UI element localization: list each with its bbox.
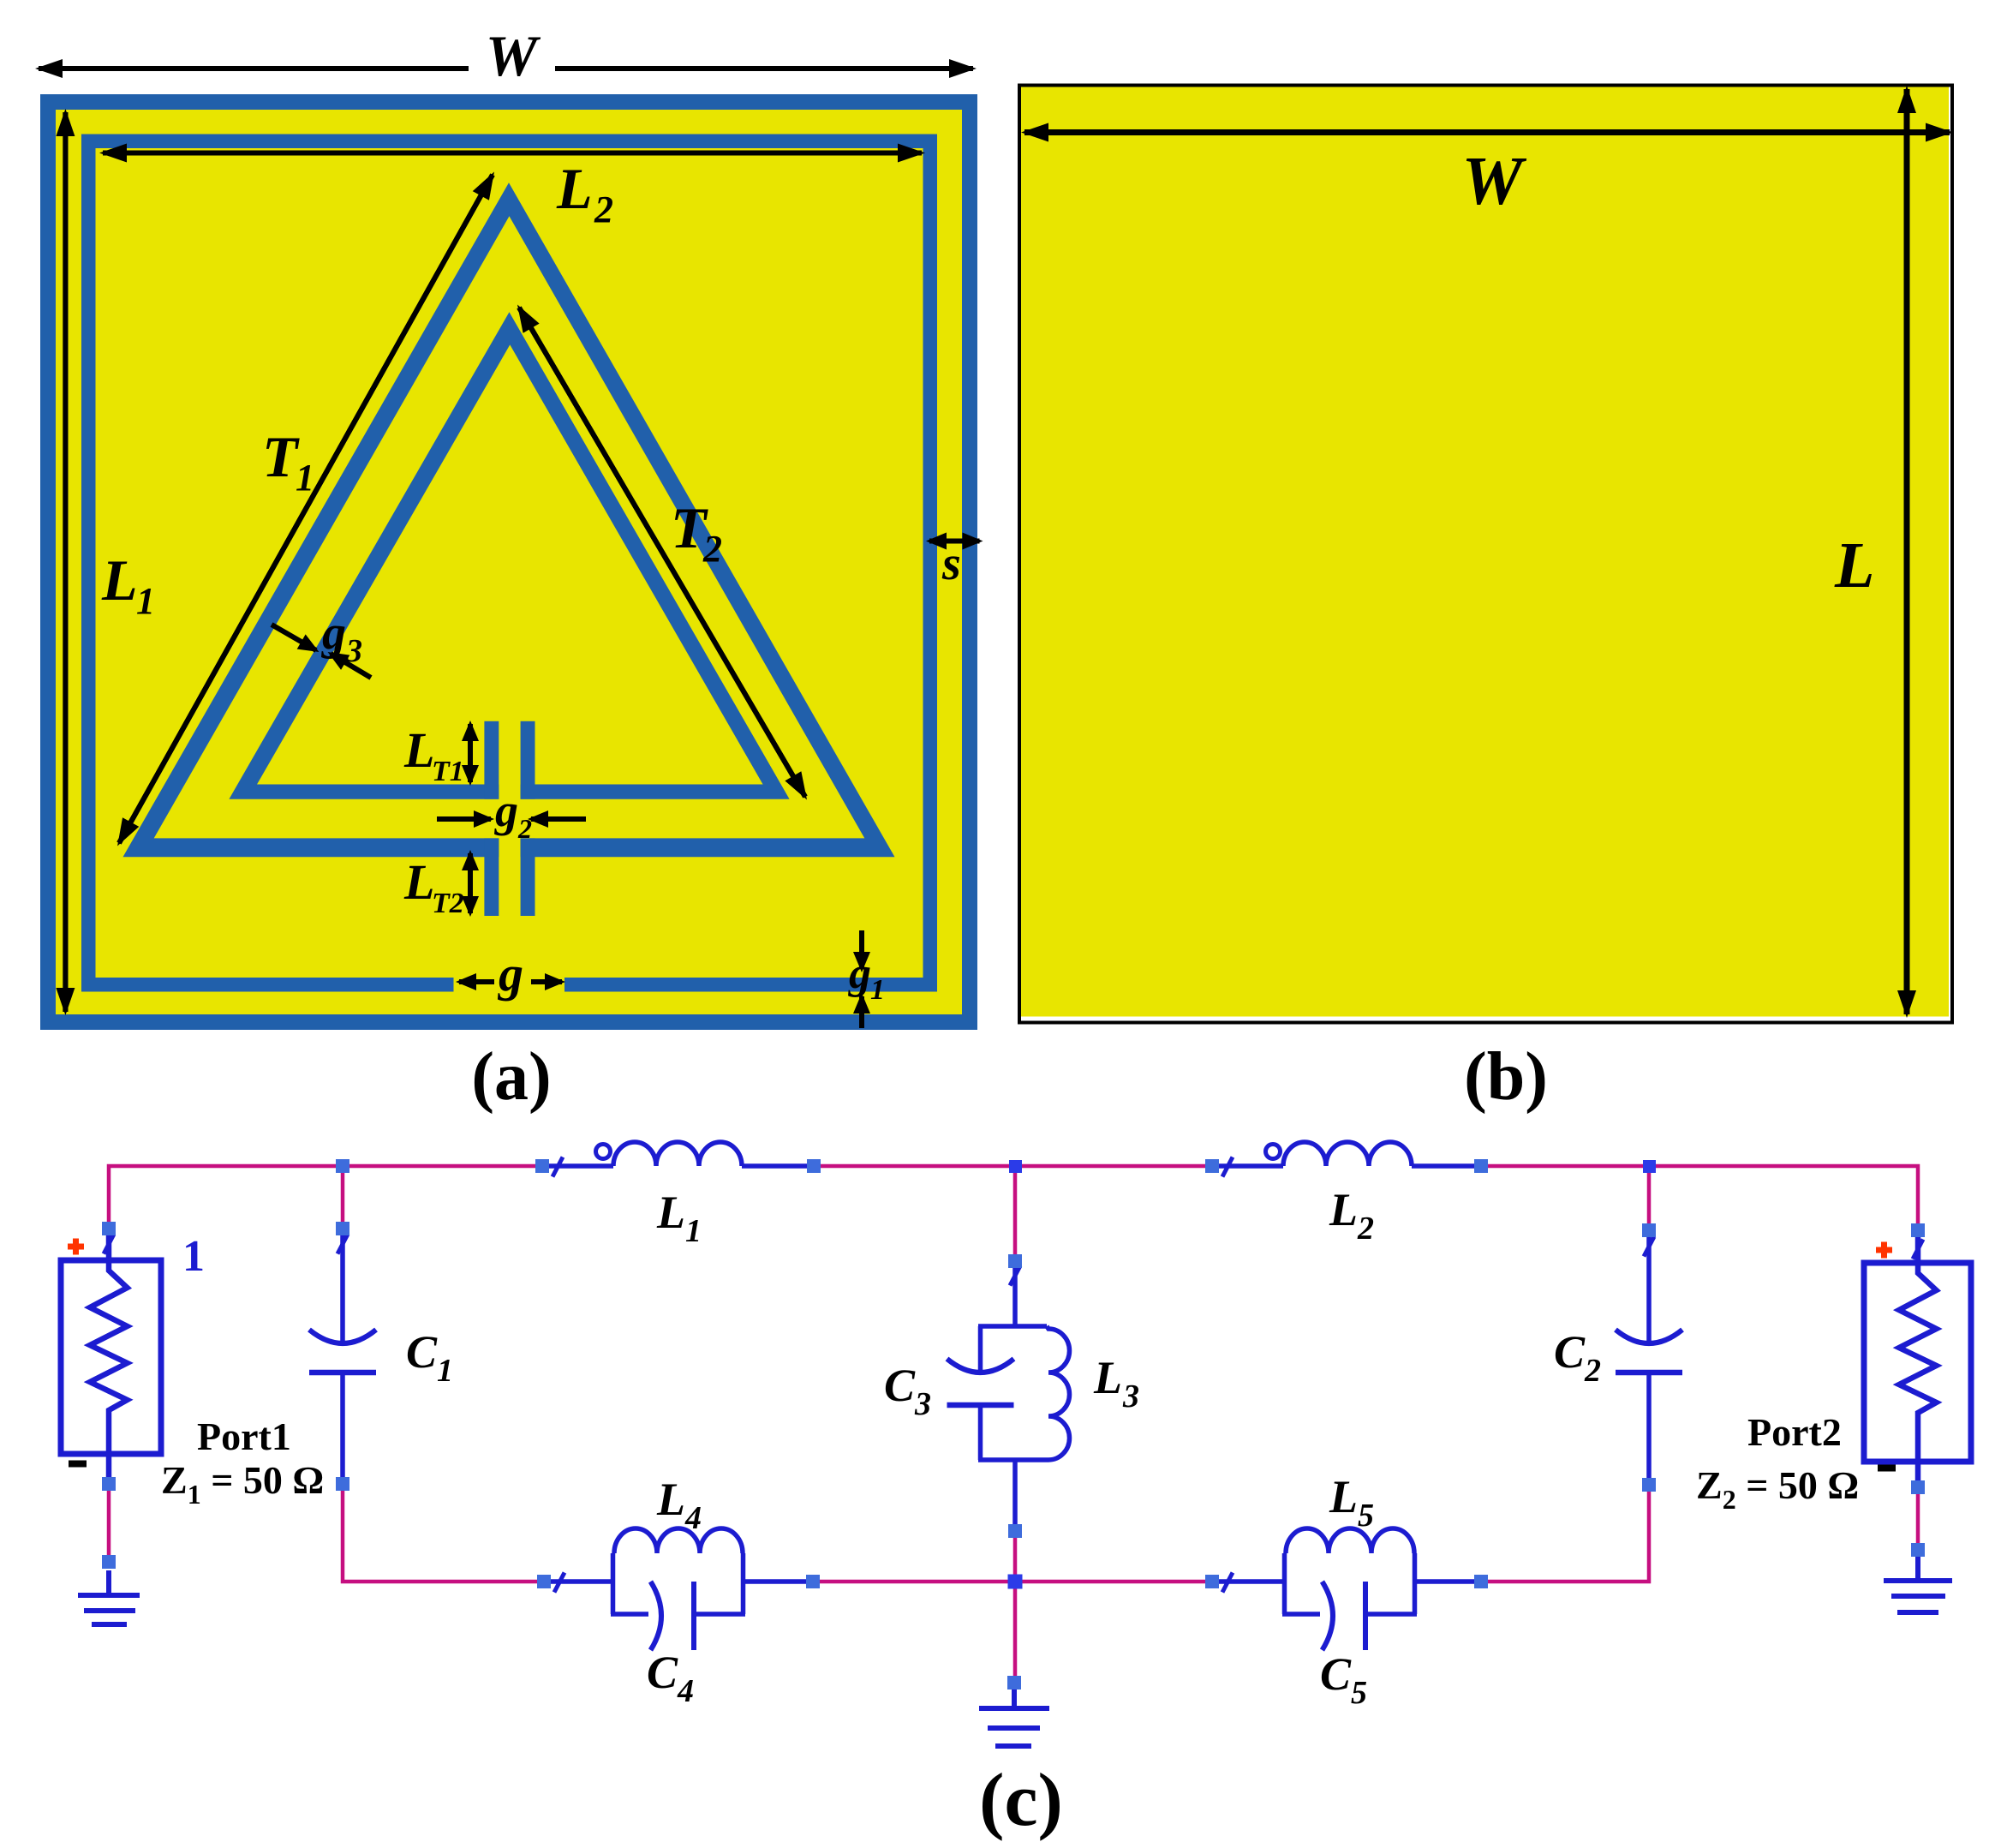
plus sign Port2: [1876, 1242, 1892, 1259]
ground Port2: [1884, 1550, 1952, 1612]
node top rail at C2: [1643, 1160, 1656, 1173]
capacitor C5 curved plate: [1323, 1582, 1334, 1650]
stub LT2 left (down from outer triangle base): [484, 838, 499, 916]
tick Port1: [104, 1235, 114, 1254]
dimension arrow W (panel b): [1024, 129, 1950, 135]
node C2 bottom: [1642, 1478, 1656, 1492]
svg-text:Z1 = 50 Ω: Z1 = 50 Ω: [161, 1458, 324, 1510]
capacitor C3 lower stub: [978, 1405, 983, 1460]
node C2 top: [1642, 1223, 1656, 1237]
node L5 left: [1205, 1575, 1219, 1588]
black border of panel (b): [1019, 86, 1952, 1023]
capacitor C1 lead lower: [340, 1373, 345, 1484]
minus sign Port2: [1878, 1465, 1896, 1472]
node L4 right: [806, 1575, 820, 1588]
svg-text:5: 5: [1358, 1498, 1374, 1534]
svg-text:1: 1: [296, 457, 314, 499]
tank L4 side verticals: [613, 1553, 744, 1614]
inductor L2 pin-1 circle: [1266, 1145, 1281, 1159]
tank L4 bottom lines: [611, 1612, 745, 1617]
LT2 double arrow: [468, 853, 473, 913]
wire Port2 lower pink: [1916, 1487, 1920, 1550]
svg-text:C: C: [884, 1360, 916, 1411]
svg-text:L: L: [403, 722, 434, 778]
inductor L2 leads: [1212, 1163, 1283, 1169]
svg-text:g: g: [320, 607, 346, 660]
node Port2 ground: [1911, 1543, 1925, 1557]
svg-text:L: L: [1093, 1352, 1122, 1403]
dimension arrow L2: [103, 151, 922, 156]
svg-text:Z2 = 50 Ω: Z2 = 50 Ω: [1696, 1463, 1859, 1515]
g3 arrow lower: [331, 654, 371, 678]
inductor L3 coil (right side of tank): [1047, 1326, 1070, 1460]
yellow interior of inner triangle ring: [257, 344, 763, 784]
dimension arrow L (panel b right): [1904, 89, 1910, 1014]
svg-text:C: C: [406, 1326, 438, 1378]
svg-text:(c): (c): [979, 1759, 1063, 1842]
wire C2 branch upper: [1647, 1166, 1652, 1230]
inner triangle ring (blue): [229, 312, 789, 798]
svg-text:s: s: [941, 537, 961, 590]
wire C1 branch upper: [341, 1166, 345, 1229]
svg-text:3: 3: [345, 633, 362, 669]
inductor L1 coil: [613, 1142, 742, 1166]
svg-text:4: 4: [684, 1500, 702, 1536]
svg-text:2: 2: [594, 188, 613, 230]
tank lead upper: [1012, 1261, 1018, 1326]
svg-text:2: 2: [517, 813, 532, 844]
node Port2 plus: [1911, 1223, 1925, 1237]
svg-text:2: 2: [1357, 1211, 1374, 1247]
gap g2 channel cutting both triangle bases: [499, 778, 520, 860]
wire C1 branch lower + bottom rail to L4: [343, 1484, 544, 1582]
g1 arrow up: [859, 996, 864, 1028]
svg-text:C: C: [647, 1647, 678, 1698]
svg-text:1: 1: [437, 1353, 453, 1389]
svg-text:L: L: [1329, 1184, 1358, 1235]
capacitor C3 upper stub: [978, 1326, 983, 1371]
inductor L2 coil: [1283, 1142, 1412, 1166]
g2 arrow right (points left): [531, 816, 586, 822]
svg-text:L: L: [656, 1187, 685, 1238]
capacitor C2 lead upper: [1646, 1236, 1652, 1345]
svg-text:T: T: [262, 424, 300, 489]
outer triangle ring (blue): [123, 182, 895, 857]
tank L5 bottom lines: [1282, 1612, 1417, 1617]
wire center column upper (node to tank): [1013, 1166, 1018, 1261]
node Port1 minus: [102, 1477, 116, 1491]
capacitor C1 straight plate: [309, 1370, 376, 1376]
capacitor C2 lead lower: [1646, 1373, 1652, 1485]
svg-text:T2: T2: [432, 888, 464, 919]
LT1 double arrow: [468, 724, 473, 782]
svg-text:L: L: [403, 854, 434, 910]
g2 arrow left (points right): [437, 816, 491, 822]
capacitor C1 curved plate: [309, 1330, 376, 1343]
node C1 top: [336, 1222, 349, 1235]
svg-text:g: g: [848, 949, 871, 998]
substrate yellow inside outer ring: [56, 110, 962, 1014]
svg-text:L: L: [1329, 1471, 1358, 1522]
node Port1 plus: [102, 1222, 116, 1235]
minus sign Port1: [69, 1461, 87, 1468]
ground center: [979, 1683, 1049, 1746]
svg-text:C: C: [1554, 1326, 1586, 1378]
tank top line: [978, 1324, 1047, 1329]
svg-text:L: L: [101, 547, 138, 613]
stub LT2 right (down from outer triangle base): [521, 838, 535, 916]
g arrow right: [531, 979, 562, 984]
inductor L1 pin-1 circle: [596, 1145, 611, 1159]
port 1 source box: [61, 1260, 161, 1454]
tick L1: [553, 1157, 563, 1177]
node L5 right: [1474, 1575, 1488, 1588]
svg-text:g: g: [494, 785, 518, 836]
svg-text:(a): (a): [471, 1039, 551, 1115]
svg-text:Port1: Port1: [197, 1414, 291, 1458]
dimension arrow L1 (left vertical): [63, 112, 68, 1012]
tick L2: [1222, 1157, 1233, 1177]
yellow interior of outer triangle ring: [154, 216, 865, 838]
svg-text:g: g: [497, 946, 523, 1002]
tick C2: [1644, 1237, 1654, 1257]
ground Port1: [78, 1570, 140, 1624]
svg-text:2: 2: [1584, 1353, 1601, 1389]
svg-text:(b): (b): [1464, 1039, 1548, 1115]
node L2 left: [1205, 1159, 1219, 1173]
node L4 left: [537, 1575, 551, 1588]
svg-text:Port2: Port2: [1747, 1410, 1842, 1454]
plus sign Port1: [68, 1239, 84, 1255]
yellow interior of inner ring: [96, 148, 923, 978]
node top center junction: [1009, 1160, 1022, 1173]
capacitor C3 straight plate: [947, 1402, 1014, 1408]
wire center ground stem: [1013, 1582, 1018, 1683]
resistor R1 (Port1 termination): [90, 1235, 128, 1484]
svg-text:1: 1: [685, 1213, 702, 1249]
node Port1 ground: [102, 1555, 116, 1569]
tick center column: [1010, 1266, 1020, 1286]
g1 arrow down: [859, 930, 864, 969]
port 2 source box: [1864, 1263, 1971, 1462]
node center tank bottom: [1008, 1524, 1022, 1538]
capacitor C5 straight plate: [1363, 1582, 1368, 1650]
tank L5 side verticals: [1285, 1553, 1415, 1614]
capacitor C4 straight plate: [691, 1582, 696, 1650]
node center ground: [1007, 1676, 1021, 1690]
svg-text:W: W: [486, 23, 541, 88]
wire Port1 lower pink: [107, 1484, 111, 1562]
inner square ring (blue): [81, 135, 937, 992]
svg-text:1: 1: [870, 974, 885, 1006]
capacitor C1 lead upper: [340, 1235, 345, 1345]
g arrow left: [459, 979, 494, 984]
svg-text:2: 2: [702, 528, 722, 570]
capacitor C3 curved plate: [947, 1359, 1014, 1373]
node L2 right: [1474, 1159, 1488, 1173]
node center tank top: [1008, 1254, 1022, 1268]
dimension arrow T1 (along outer triangle left side): [119, 175, 493, 843]
node bottom center junction: [1008, 1575, 1023, 1589]
tank bottom line: [978, 1457, 1047, 1462]
wire center column lower (tank to bottom rail): [1013, 1531, 1018, 1582]
svg-text:3: 3: [914, 1386, 931, 1422]
node L1 left: [535, 1159, 549, 1173]
inductor L1 leads: [542, 1163, 613, 1169]
tick C1: [337, 1235, 348, 1254]
stub LT1 right (up from inner triangle base): [521, 721, 535, 799]
svg-text:W: W: [1461, 144, 1526, 219]
svg-text:4: 4: [677, 1673, 694, 1709]
node top rail at C1: [336, 1159, 349, 1173]
resistor R2 (Port2 termination): [1899, 1236, 1937, 1487]
wire top rail segment Port1-to-L1: [109, 1166, 542, 1229]
node C1 bottom: [336, 1477, 349, 1491]
yellow patch of panel (b): [1021, 87, 1949, 1017]
svg-text:L: L: [556, 156, 593, 221]
wire bottom rail L4-to-L5: [813, 1580, 1212, 1584]
inductor L4 coil: [614, 1528, 743, 1553]
capacitor C4 curved plate: [651, 1582, 662, 1650]
svg-text:L: L: [656, 1474, 685, 1525]
svg-text:5: 5: [1351, 1675, 1367, 1711]
node L1 right: [807, 1159, 821, 1173]
outer metal square ring (blue border of unit cell): [40, 94, 977, 1030]
svg-text:C: C: [1320, 1648, 1352, 1700]
tank L5 leads: [1212, 1579, 1282, 1584]
g3 arrow upper: [272, 625, 316, 650]
svg-text:1: 1: [136, 580, 155, 622]
stub LT1 left (up from inner triangle base): [484, 721, 499, 799]
node Port2 minus: [1911, 1480, 1925, 1494]
tick L5: [1222, 1573, 1233, 1593]
dimension arrow T2 (along inner triangle right side): [519, 308, 805, 797]
inductor L5 coil: [1286, 1528, 1414, 1553]
gap g in bottom side of inner ring: [454, 976, 565, 993]
tick Port2: [1913, 1240, 1923, 1259]
svg-text:L: L: [1834, 529, 1874, 601]
svg-text:1: 1: [182, 1232, 205, 1281]
capacitor C2 curved plate: [1616, 1330, 1682, 1343]
tick L4: [554, 1573, 564, 1593]
tank L4 leads: [544, 1579, 611, 1584]
svg-text:T1: T1: [432, 756, 464, 787]
svg-text:3: 3: [1122, 1379, 1139, 1414]
dimension arrow W (top): [39, 66, 469, 71]
dimension arrow s (right-side spacing): [929, 539, 980, 544]
tank lead lower: [1012, 1460, 1018, 1531]
wire top rail segment L1-to-L2: [814, 1164, 1212, 1169]
wire bottom rail L5-to-C2: [1481, 1485, 1649, 1582]
capacitor C2 straight plate: [1616, 1370, 1682, 1376]
wire top rail segment L2-to-Port2: [1481, 1166, 1918, 1230]
